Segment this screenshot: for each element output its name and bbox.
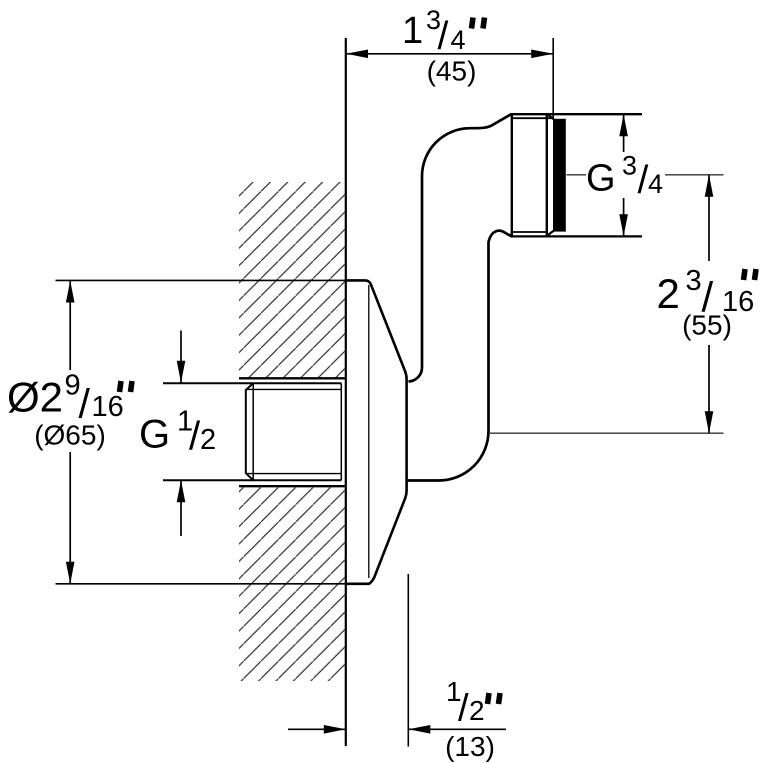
thread chamfer boundary (252, 383, 254, 480)
svg-text:(Ø65): (Ø65) (34, 420, 106, 451)
wall hatching upper (239, 182, 345, 378)
nut bottom edge + witness line (511, 235, 642, 237)
svg-text:2: 2 (657, 270, 680, 317)
svg-text:3: 3 (686, 265, 702, 297)
dim 45 arrow right (531, 50, 553, 59)
svg-text:2: 2 (469, 695, 485, 726)
thread left face (245, 390, 247, 474)
leader G3/4 right (665, 174, 724, 176)
nut right face (546, 113, 548, 237)
svg-text:/: / (638, 159, 649, 202)
nut chamfer bottom right (546, 231, 554, 237)
nut G3/4: top edge + witness line (511, 113, 642, 115)
leader G3/4 left (567, 174, 587, 176)
svg-text:2: 2 (200, 424, 216, 456)
svg-text:4: 4 (451, 25, 466, 55)
wall face line (345, 38, 347, 746)
wall hole bottom edge (239, 485, 345, 487)
dim 13 bottom (288, 728, 346, 730)
thread chamfer top (246, 383, 253, 390)
svg-text:G: G (586, 158, 616, 200)
thread root top (246, 388, 341, 390)
nut inner top line (512, 117, 553, 119)
dim 65 ext bottom (56, 583, 346, 585)
svg-text:(13): (13) (445, 731, 495, 762)
svg-text:3: 3 (622, 151, 637, 181)
thread root bottom (246, 473, 341, 475)
dim G1/2 arrow up (180, 481, 182, 537)
thread G1/2 crest top + witness (163, 382, 341, 384)
nut chamfer top right (546, 114, 554, 120)
svg-text:4: 4 (648, 169, 663, 199)
svg-text:1: 1 (402, 10, 423, 52)
dim 45 line (346, 53, 553, 55)
thread G1/2 crest bottom + witness (163, 479, 341, 481)
svg-text:G: G (139, 413, 170, 457)
dim 45 arrow left (346, 50, 368, 59)
wall hatching lower (239, 486, 345, 681)
svg-text:Ø2: Ø2 (7, 374, 63, 421)
pipe upper outline (409, 114, 512, 382)
nut inner bottom line (513, 231, 546, 233)
svg-text:/: / (458, 688, 469, 730)
svg-text:(55): (55) (682, 310, 732, 341)
dim 45 ext right (552, 38, 554, 119)
leader lower axis (490, 432, 724, 434)
flange dome silhouette (368, 285, 370, 578)
flange outline (346, 280, 407, 583)
svg-text:(45): (45) (427, 56, 477, 87)
dim 13 ext right (407, 574, 409, 747)
thread end at wall (340, 383, 342, 480)
pipe lower outline (407, 231, 513, 481)
dim 65 ext top (56, 279, 346, 281)
dim G3/4 arrow up (623, 114, 625, 152)
svg-text:16: 16 (92, 391, 124, 423)
wall hole top edge (239, 377, 345, 379)
dim 55 vertical (708, 175, 710, 261)
nut left face (511, 113, 513, 237)
dim G3/4 arrow down (623, 198, 625, 236)
dim G1/2 arrow down (180, 331, 182, 383)
dim 65 vertical (69, 281, 71, 371)
seal gasket black (553, 119, 566, 232)
svg-text:/: / (438, 15, 449, 58)
thread chamfer bottom (246, 473, 253, 480)
